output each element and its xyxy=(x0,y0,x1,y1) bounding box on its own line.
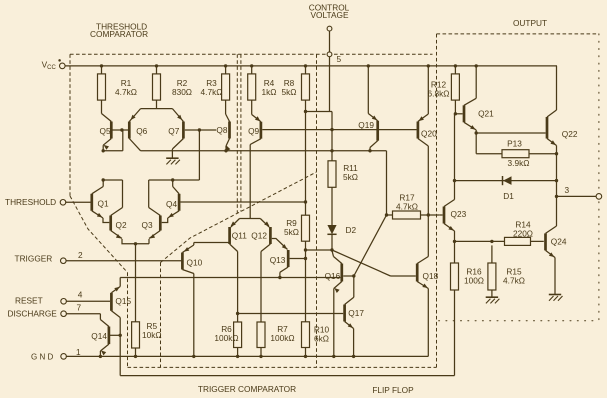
svg-text:D1: D1 xyxy=(503,191,514,201)
svg-text:Q20: Q20 xyxy=(421,129,437,139)
svg-text:Q16: Q16 xyxy=(325,271,341,281)
svg-text:VOLTAGE: VOLTAGE xyxy=(311,10,349,20)
svg-text:100Ω: 100Ω xyxy=(464,276,484,286)
svg-text:830Ω: 830Ω xyxy=(172,87,192,97)
svg-text:P13: P13 xyxy=(507,139,522,149)
svg-text:Q8: Q8 xyxy=(216,125,227,135)
svg-text:3.9kΩ: 3.9kΩ xyxy=(508,158,530,168)
svg-text:Q6: Q6 xyxy=(136,126,147,136)
svg-text:4.7kΩ: 4.7kΩ xyxy=(503,276,525,286)
svg-text:Q7: Q7 xyxy=(168,126,179,136)
svg-text:100kΩ: 100kΩ xyxy=(270,333,294,343)
svg-text:Q4: Q4 xyxy=(166,199,177,209)
svg-text:Q9: Q9 xyxy=(248,126,259,136)
svg-text:220Ω: 220Ω xyxy=(513,229,533,239)
svg-text:Q18: Q18 xyxy=(423,271,439,281)
svg-text:3: 3 xyxy=(565,185,570,195)
svg-text:Q12: Q12 xyxy=(251,230,267,240)
svg-text:FLIP FLOP: FLIP FLOP xyxy=(372,385,414,395)
svg-text:2: 2 xyxy=(78,250,83,260)
svg-text:Q24: Q24 xyxy=(551,237,567,247)
svg-text:7: 7 xyxy=(77,302,82,312)
svg-text:6.8kΩ: 6.8kΩ xyxy=(428,89,450,99)
svg-text:Q22: Q22 xyxy=(562,129,578,139)
svg-text:TRIGGER COMPARATOR: TRIGGER COMPARATOR xyxy=(198,384,296,394)
svg-text:5kΩ: 5kΩ xyxy=(343,172,358,182)
svg-text:4.7kΩ: 4.7kΩ xyxy=(201,87,223,97)
svg-text:100kΩ: 100kΩ xyxy=(214,333,238,343)
svg-text:Q5: Q5 xyxy=(100,126,111,136)
svg-text:G N D: G N D xyxy=(31,352,53,361)
svg-text:Q10: Q10 xyxy=(187,257,203,267)
svg-text:Q14: Q14 xyxy=(91,331,107,341)
svg-text:Q23: Q23 xyxy=(451,209,467,219)
svg-text:5: 5 xyxy=(337,54,342,64)
svg-text:Q2: Q2 xyxy=(116,220,127,230)
svg-text:5kΩ: 5kΩ xyxy=(284,227,299,237)
svg-text:DISCHARGE: DISCHARGE xyxy=(8,308,58,318)
svg-text:COMPARATOR: COMPARATOR xyxy=(90,29,148,39)
svg-text:Q1: Q1 xyxy=(98,198,109,208)
svg-text:Q21: Q21 xyxy=(478,109,494,119)
svg-text:4: 4 xyxy=(78,289,83,299)
svg-text:RESET: RESET xyxy=(15,295,43,305)
svg-text:6kΩ: 6kΩ xyxy=(314,334,329,344)
svg-text:Q19: Q19 xyxy=(358,120,374,130)
svg-text:Q11: Q11 xyxy=(232,230,247,240)
svg-text:10kΩ: 10kΩ xyxy=(142,330,162,340)
svg-text:Q17: Q17 xyxy=(348,308,364,318)
svg-text:Q3: Q3 xyxy=(142,220,153,230)
svg-text:1: 1 xyxy=(76,347,81,357)
svg-text:4.7kΩ: 4.7kΩ xyxy=(115,87,137,97)
svg-text:5kΩ: 5kΩ xyxy=(282,87,297,97)
svg-text:Q15: Q15 xyxy=(115,296,131,306)
svg-text:4.7kΩ: 4.7kΩ xyxy=(396,202,418,212)
svg-text:THRESHOLD: THRESHOLD xyxy=(5,197,56,207)
svg-text:D2: D2 xyxy=(346,225,357,235)
svg-text:Q13: Q13 xyxy=(270,255,286,265)
svg-text:OUTPUT: OUTPUT xyxy=(513,18,547,28)
svg-text:TRIGGER: TRIGGER xyxy=(15,253,53,263)
svg-text:1kΩ: 1kΩ xyxy=(262,87,277,97)
